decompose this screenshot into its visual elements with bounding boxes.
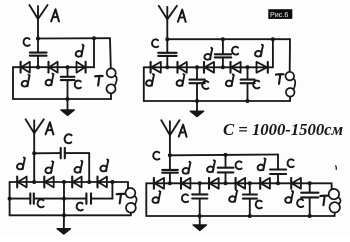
wire: left rail (circuit 1) <box>12 67 14 99</box>
wire: phones to bottom rail (circuit 1) <box>110 93 112 99</box>
wire: left rail (circuit 2) <box>143 67 145 101</box>
wire: capacitor rail (circuit 3) <box>10 198 113 200</box>
diode d1 (circuit 4) <box>154 178 164 189</box>
wire: antenna down to diode row (circuit 3) <box>33 153 35 182</box>
label A (circuit 2) <box>178 10 186 22</box>
node: centre tap on bottom rail (circuit 3) <box>62 213 66 217</box>
diode d3 (circuit 1) <box>77 62 86 73</box>
label T (circuit 3) <box>117 194 125 204</box>
wire: phones to bottom rail (circuit 3) <box>130 213 132 216</box>
wire: diode row (circuit 3) <box>10 181 128 183</box>
diode d3 (circuit 4) <box>209 178 219 189</box>
diode d3 (circuit 3) <box>72 177 81 188</box>
label d4 (circuit 3) <box>100 160 108 172</box>
label c shunt 1 (circuit 4) <box>182 194 188 202</box>
wire: right drop to phones (circuit 1) <box>109 38 112 68</box>
capacitor c2 (circuit 3) <box>86 193 91 203</box>
node: phones tap (circuit 3) <box>110 180 114 184</box>
capacitor c shunt B (circuit 2) <box>241 67 255 101</box>
label d1 (circuit 1) <box>22 75 30 87</box>
label T (circuit 2) <box>276 74 284 84</box>
node: antenna branch junction (circuit 3) <box>32 151 36 155</box>
node: antenna junction (circuit 4) <box>168 153 172 157</box>
label c series (circuit 1) <box>24 38 30 46</box>
antenna A (circuit 1) <box>29 5 47 39</box>
label d3 (circuit 2) <box>204 48 212 60</box>
antenna A (circuit 2) <box>159 6 177 39</box>
wire: left rail (circuit 3) <box>9 182 11 215</box>
label A (circuit 1) <box>51 9 59 21</box>
node: shunt cap A junction (circuit 2) <box>195 65 199 69</box>
svg-text:Рис.6: Рис.6 <box>270 10 288 19</box>
node: shunt 3 junction (circuit 4) <box>308 181 312 185</box>
node: shunt cap to bottom rail (circuit 1) <box>66 97 70 101</box>
ground (circuit 3) <box>57 215 70 234</box>
node: cap-up 2 junction (circuit 4) <box>276 181 280 185</box>
node: shunt 2 junction (circuit 4) <box>248 181 252 185</box>
capacitor c shunt 3 (circuit 4) <box>301 183 318 216</box>
label d4 (circuit 4) <box>229 190 237 202</box>
node: antenna junction (circuit 1) <box>36 37 40 41</box>
label d3 (circuit 1) <box>76 45 84 57</box>
node: centre tap (circuit 3) <box>62 180 66 184</box>
capacitor c1 (circuit 3) <box>30 193 34 203</box>
phones T (circuit 2) <box>286 72 296 97</box>
label c2 (circuit 3) <box>77 203 83 211</box>
label d2 (circuit 3) <box>45 161 53 173</box>
capacitor c up-2 (circuit 4) <box>270 170 286 184</box>
node: branch joins diode row (circuit 3) <box>87 180 91 184</box>
diode d2 (circuit 1) <box>49 62 58 73</box>
label c up-2 (circuit 4) <box>288 159 294 167</box>
label d2 (circuit 2) <box>177 74 185 86</box>
wire: centre tap down (circuit 3) <box>63 182 65 215</box>
label d5 (circuit 4) <box>258 159 266 171</box>
stray pen tick <box>335 166 338 170</box>
node: cap-up 1 on rail (circuit 4) <box>224 153 228 157</box>
label d5 (circuit 2) <box>255 45 263 57</box>
node: antenna joins diode row (circuit 3) <box>32 180 36 184</box>
node: shunt B to bottom rail (circuit 2) <box>246 99 250 103</box>
wire: top rail (circuit 2) <box>167 38 290 40</box>
node: cap rail left (circuit 3) <box>8 197 12 201</box>
diode d1 (circuit 1) <box>21 62 30 73</box>
diode d1 (circuit 3) <box>17 177 26 188</box>
node: centre tap on cap rail (circuit 3) <box>62 197 66 201</box>
diode d2 (circuit 3) <box>44 177 53 188</box>
annotation C = 1000-1500cm <box>223 120 343 139</box>
node: shunt 3 on bottom rail (circuit 4) <box>308 214 312 218</box>
label A (circuit 3) <box>46 122 54 134</box>
wire: riser diode d5 to top rail (circuit 2) <box>272 39 274 67</box>
node: series cap to diode row (circuit 1) <box>36 65 40 69</box>
label T (circuit 1) <box>95 76 103 86</box>
wire: bottom rail (circuit 2) <box>144 100 290 102</box>
diode d5 (circuit 4) <box>260 178 270 189</box>
antenna A (circuit 4) <box>161 120 179 155</box>
phones T (circuit 4) <box>329 189 341 213</box>
capacitor c series (circuit 4) <box>162 155 178 183</box>
label d3 (circuit 3) <box>74 161 82 173</box>
node: shunt 2 on bottom rail (circuit 4) <box>248 214 252 218</box>
wire: rail corner drop (circuit 4) <box>277 155 279 170</box>
label d3 (circuit 4) <box>207 160 215 172</box>
label c shunt (circuit 1) <box>75 81 81 89</box>
ground (circuit 1) <box>61 99 74 115</box>
capacitor C branch (circuit 3) <box>34 148 89 158</box>
wire: phones drop (circuit 3) <box>127 182 129 189</box>
diode d1 (circuit 2) <box>151 62 161 73</box>
label c series (circuit 2) <box>152 39 158 47</box>
phones T (circuit 3) <box>125 188 136 213</box>
wire: left rail (circuit 4) <box>145 183 147 216</box>
diode d6 (circuit 4) <box>291 178 301 189</box>
label A (circuit 4) <box>179 125 187 137</box>
wire: top rail (circuit 1) <box>38 37 110 39</box>
wire: phones to bottom rail (circuit 2) <box>289 97 291 101</box>
label c shunt 3 (circuit 4) <box>297 199 303 207</box>
wire: bottom rail (circuit 3) <box>10 214 131 216</box>
label c up-1 (circuit 4) <box>236 161 242 169</box>
wire: diode row (circuit 1) <box>13 66 94 68</box>
wire: bottom rail (circuit 1) <box>13 98 111 100</box>
figure badge Рис.6 <box>268 9 292 19</box>
ground (circuit 4) <box>193 216 206 230</box>
capacitor c mid rail-to-row (circuit 2) <box>215 39 231 67</box>
label d2 (circuit 1) <box>46 74 54 86</box>
label d1 (circuit 4) <box>152 191 160 203</box>
node: series cap to diode row (circuit 2) <box>165 65 169 69</box>
label c shunt B (circuit 2) <box>253 81 259 89</box>
label d1 (circuit 2) <box>146 74 154 86</box>
wire: phones to bottom rail (circuit 4) <box>334 213 336 216</box>
node: shunt 1 junction (circuit 4) <box>198 181 202 185</box>
wire: phones drop (circuit 4) <box>331 183 333 189</box>
wire: branch drop to diode row (circuit 3) <box>88 153 90 182</box>
capacitor c shunt (circuit 1) <box>61 67 75 99</box>
phones T (circuit 1) <box>107 68 117 93</box>
wire: cap rail riser to phones tap (circuit 3) <box>111 182 113 199</box>
wire: riser diode d3 to top rail (circuit 1) <box>93 38 95 67</box>
label d2 (circuit 4) <box>183 162 191 174</box>
node: mid cap on top rail (circuit 2) <box>221 37 225 41</box>
label d1 (circuit 3) <box>17 158 25 170</box>
capacitor c series (circuit 1) <box>30 39 47 68</box>
node: antenna junction (circuit 2) <box>165 37 169 41</box>
label c1 (circuit 3) <box>38 199 44 207</box>
wire: top rail (circuit 4) <box>170 154 278 157</box>
node: series cap to diode row (circuit 4) <box>168 181 172 185</box>
label d6 (circuit 4) <box>285 191 293 203</box>
wire: diode row (circuit 2) <box>144 66 273 68</box>
diode d2 (circuit 2) <box>178 62 187 73</box>
ground (circuit 2) <box>190 101 203 117</box>
capacitor c shunt 2 (circuit 4) <box>243 183 257 216</box>
label c mid (circuit 2) <box>232 47 238 55</box>
node: cap-up 1 junction (circuit 4) <box>224 181 228 185</box>
node: shunt cap B junction (circuit 2) <box>246 65 250 69</box>
node: shunt A to bottom rail (circuit 2) <box>195 99 199 103</box>
capacitor c shunt 1 (circuit 4) <box>192 183 207 216</box>
capacitor c series (circuit 2) <box>158 39 176 67</box>
node: shunt 1 on bottom rail (circuit 4) <box>198 214 202 218</box>
diode d3 (circuit 2) <box>204 62 214 73</box>
node: riser joins top rail (circuit 1) <box>92 36 96 40</box>
diode d4 (circuit 4) <box>236 178 246 189</box>
label c series (circuit 4) <box>153 152 159 160</box>
svg-text:C = 1000-1500см: C = 1000-1500см <box>223 120 343 139</box>
diode d2 (circuit 4) <box>181 178 190 189</box>
capacitor c up-1 (circuit 4) <box>218 155 234 184</box>
diode d4 (circuit 2) <box>231 62 241 73</box>
antenna A (circuit 3) <box>26 119 44 153</box>
label C branch (circuit 3) <box>65 134 72 143</box>
label d4 (circuit 2) <box>226 74 234 86</box>
capacitor c shunt A (circuit 2) <box>190 67 205 101</box>
wire: bottom rail (circuit 4) <box>146 215 334 217</box>
node: shunt cap junction (circuit 1) <box>66 65 70 69</box>
diode d5 (circuit 2) <box>257 62 268 73</box>
wire: right drop to phones (circuit 2) <box>289 39 291 72</box>
node: riser joins top rail (circuit 2) <box>271 37 275 41</box>
label T (circuit 4) <box>320 196 328 206</box>
node: mid cap joins diode row (circuit 2) <box>221 65 225 69</box>
label c shunt A (circuit 2) <box>202 81 208 89</box>
diode d4 (circuit 3) <box>98 177 107 188</box>
label c shunt 2 (circuit 4) <box>256 201 262 209</box>
wire: diode row (circuit 4) <box>146 182 331 184</box>
